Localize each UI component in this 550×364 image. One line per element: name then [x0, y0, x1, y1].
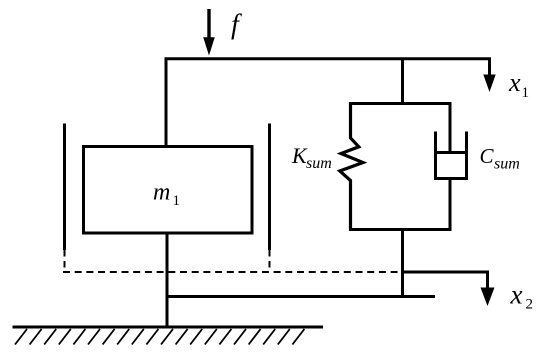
combo top bar — [349, 102, 450, 105]
right guide wall solid — [268, 124, 271, 251]
combo bottom bar — [349, 228, 452, 231]
force arrow f head — [203, 37, 215, 55]
svg-text:2: 2 — [526, 297, 534, 313]
svg-text:sum: sum — [494, 156, 520, 173]
arrow x2 head — [481, 288, 495, 307]
arrow x1 head — [483, 75, 495, 93]
svg-text:m: m — [153, 180, 170, 206]
left guide wall dashed — [64, 250, 66, 272]
svg-text:f: f — [231, 10, 242, 41]
ground hatching — [15, 329, 304, 345]
x2 takeoff wire — [403, 272, 488, 289]
damper left wall — [434, 132, 437, 181]
spring Ksum — [340, 102, 363, 231]
wire top horizontal bar — [166, 59, 490, 146]
force arrow f shaft — [207, 9, 210, 40]
svg-text:sum: sum — [306, 155, 332, 172]
dashed level line — [63, 271, 402, 273]
wire top to combo — [401, 59, 404, 104]
wire combo to lower node — [401, 230, 404, 298]
mass m1 rectangle — [84, 147, 253, 234]
svg-text:x: x — [508, 68, 521, 97]
svg-text:1: 1 — [173, 193, 181, 209]
left guide wall solid — [63, 124, 66, 251]
lower connecting bar — [167, 295, 435, 298]
right guide wall dashed — [269, 250, 271, 272]
damper right wall — [465, 132, 468, 181]
damper lower rod — [449, 179, 452, 232]
ground line — [13, 326, 324, 329]
svg-text:1: 1 — [522, 85, 530, 101]
damper bottom — [434, 177, 468, 180]
wire mass lower rod — [166, 233, 169, 326]
svg-text:x: x — [510, 280, 523, 310]
damper Csum rod — [449, 102, 452, 153]
svg-text:C: C — [480, 144, 495, 168]
damper piston — [434, 151, 468, 154]
